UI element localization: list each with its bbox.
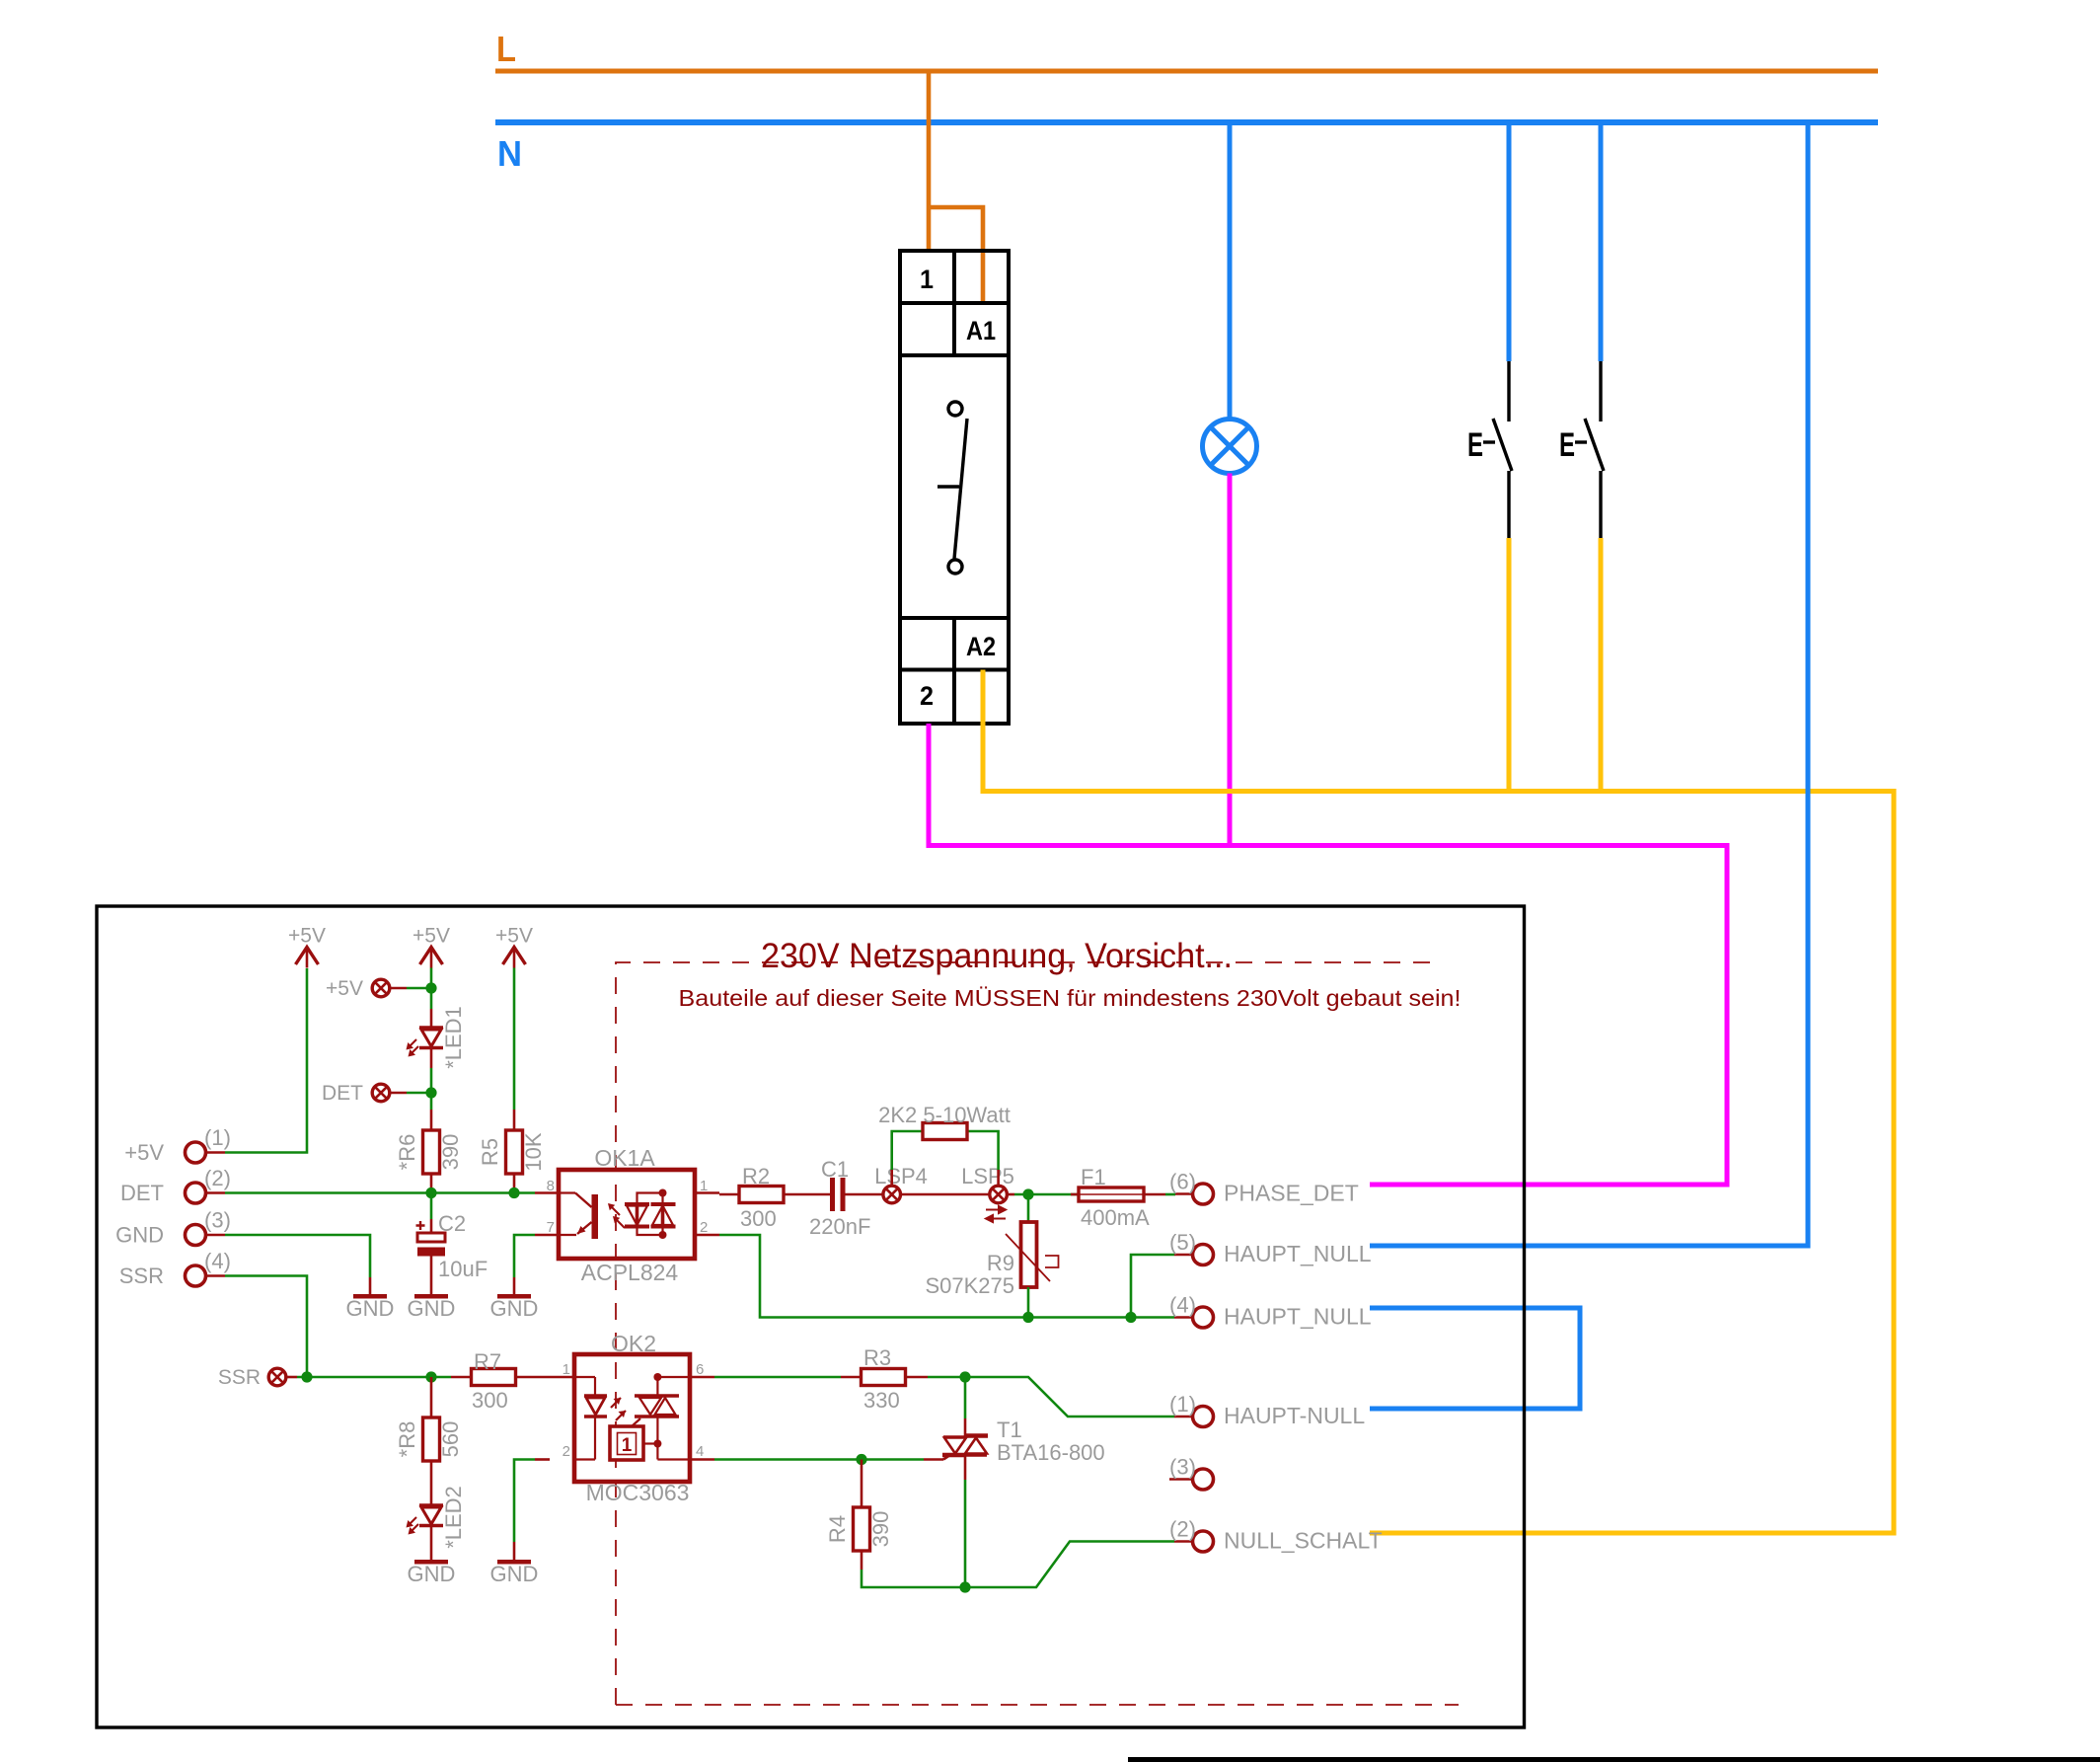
- wire N to HAUPT_NULL pad 5 (blue): [1370, 122, 1808, 1246]
- wire (pin stub): [430, 1377, 433, 1417]
- wire (pin stub): [901, 1193, 990, 1196]
- isolation boundary (dashed): [616, 962, 1459, 1705]
- wire: [514, 1235, 535, 1277]
- wire branch to relay A1: [929, 207, 983, 304]
- svg-text:2: 2: [920, 681, 934, 711]
- OK1A phototransistor: [559, 1193, 598, 1240]
- svg-text:GND: GND: [490, 1296, 539, 1321]
- wire: [965, 1542, 1174, 1588]
- wire lamp to PHASE_DET (magenta): [1228, 474, 1233, 846]
- wire: [1027, 1194, 1030, 1222]
- wire (pin stub): [1144, 1193, 1165, 1196]
- resistor R4 body: [854, 1507, 870, 1551]
- ground symbol: [353, 1294, 387, 1299]
- wire: [407, 1092, 431, 1095]
- svg-text:390: 390: [868, 1511, 893, 1548]
- OK1A back-to-back input diodes: [625, 1193, 676, 1236]
- wire: [1165, 1193, 1175, 1196]
- svg-text:SSR: SSR: [119, 1264, 164, 1288]
- svg-text:+5V: +5V: [124, 1140, 164, 1165]
- wire: [513, 1188, 516, 1193]
- test pad SSR: [268, 1368, 286, 1386]
- capacitor C1: [833, 1178, 844, 1211]
- svg-text:(6): (6): [1169, 1170, 1196, 1194]
- svg-text:10uF: 10uF: [438, 1257, 487, 1281]
- optocoupler OK2 box: [574, 1354, 690, 1482]
- wire (pin stub): [924, 1458, 943, 1461]
- test pad LSP5: [990, 1186, 1008, 1203]
- svg-text:R4: R4: [825, 1515, 850, 1543]
- connector pad X1-1: [186, 1142, 206, 1163]
- net junction: [959, 1371, 970, 1382]
- wire (pin stub): [430, 1009, 433, 1028]
- svg-text:2K2 5-10Watt: 2K2 5-10Watt: [878, 1103, 1011, 1127]
- varistor R9: [1021, 1222, 1037, 1287]
- svg-text:1: 1: [920, 265, 934, 294]
- net L : phase rail: [495, 69, 1878, 74]
- wire (pin stub): [1174, 1316, 1192, 1319]
- wire (pin stub): [430, 1526, 433, 1561]
- lamp E1 (symbol circle-X): [1203, 420, 1257, 474]
- svg-text:1: 1: [622, 1435, 633, 1456]
- resistor R5 body: [506, 1130, 523, 1174]
- net junction: [425, 982, 436, 993]
- wire: [928, 1376, 965, 1379]
- wire: [513, 968, 516, 1111]
- svg-text:HAUPT_NULL: HAUPT_NULL: [1224, 1304, 1372, 1330]
- svg-text:(1): (1): [1169, 1392, 1196, 1417]
- connector pad J3: [1193, 1469, 1214, 1490]
- svg-text:(3): (3): [1169, 1455, 1196, 1480]
- wire: [1014, 1193, 1079, 1196]
- svg-text:8: 8: [547, 1178, 555, 1194]
- connector pad X1-3: [186, 1225, 206, 1246]
- wire (pin stub): [964, 1418, 967, 1436]
- svg-text:*LED2: *LED2: [441, 1486, 466, 1549]
- svg-text:DET: DET: [322, 1082, 363, 1105]
- svg-text:*R8: *R8: [395, 1421, 419, 1458]
- net N : neutral rail: [495, 119, 1878, 125]
- svg-text:R5: R5: [478, 1138, 502, 1166]
- wire switch 1 to NULL_SCHALT (yellow): [1507, 538, 1512, 792]
- pushbutton switch E1: [1483, 361, 1512, 538]
- svg-text:T1: T1: [997, 1417, 1022, 1442]
- svg-text:A1: A1: [966, 316, 996, 345]
- test pad DET: [372, 1084, 390, 1102]
- resistor R8 body: [423, 1417, 440, 1461]
- svg-text:C1: C1: [821, 1157, 849, 1182]
- svg-text:NULL_SCHALT: NULL_SCHALT: [1224, 1528, 1383, 1554]
- resistor R2 body: [739, 1187, 784, 1203]
- wire (pin stub): [430, 1174, 433, 1188]
- svg-text:SSR: SSR: [218, 1366, 261, 1389]
- wire (pin stub): [430, 1048, 433, 1069]
- capacitor C2 (polarized): [417, 1233, 445, 1242]
- svg-text:OK2: OK2: [611, 1331, 656, 1356]
- svg-text:2: 2: [700, 1219, 708, 1236]
- svg-text:*LED1: *LED1: [441, 1006, 466, 1069]
- wire (pin stub): [784, 1193, 830, 1196]
- ground symbol: [497, 1560, 531, 1565]
- svg-text:OK1A: OK1A: [594, 1145, 655, 1171]
- wire: [514, 1460, 535, 1543]
- wire (pin stub): [390, 1092, 407, 1095]
- wire (pin stub): [861, 1551, 863, 1570]
- svg-text:GND: GND: [115, 1223, 164, 1248]
- wire: [719, 1235, 1028, 1318]
- wire (pin stub): [964, 1455, 967, 1480]
- resistor 2K2 body: [923, 1123, 967, 1140]
- wire (pin stub): [206, 1234, 226, 1237]
- svg-text:(4): (4): [204, 1249, 231, 1273]
- svg-text:E: E: [1559, 426, 1575, 464]
- svg-text:390: 390: [438, 1134, 463, 1171]
- svg-text:(2): (2): [204, 1166, 231, 1190]
- OK2 zero-cross block: [610, 1426, 643, 1460]
- wire (pin stub): [719, 1193, 739, 1196]
- svg-text:1: 1: [562, 1361, 570, 1378]
- wire (pin stub): [846, 1193, 883, 1196]
- wire (pin stub): [943, 1456, 949, 1460]
- wire (pin stub): [206, 1274, 226, 1277]
- wire (pin stub): [861, 1460, 863, 1486]
- wire (pin stub): [513, 1174, 516, 1188]
- wire (pin stub): [513, 1110, 516, 1130]
- connector pad J6: [1193, 1184, 1214, 1204]
- wire: [862, 1570, 965, 1587]
- svg-text:2: 2: [562, 1443, 570, 1460]
- svg-text:1: 1: [700, 1178, 708, 1194]
- svg-text:(4): (4): [1169, 1293, 1196, 1318]
- svg-text:LSP5: LSP5: [961, 1164, 1014, 1188]
- svg-text:+5V: +5V: [495, 925, 533, 948]
- wire (pin stub): [690, 1376, 714, 1379]
- wire: [225, 1191, 535, 1194]
- svg-text:F1: F1: [1081, 1165, 1106, 1189]
- svg-text:HAUPT-NULL: HAUPT-NULL: [1224, 1403, 1365, 1428]
- svg-text:4: 4: [696, 1443, 704, 1460]
- bottom sheet border (next frame): [1128, 1757, 2100, 1762]
- svg-text:10K: 10K: [521, 1132, 546, 1171]
- svg-text:LSP4: LSP4: [874, 1164, 928, 1188]
- wire (pin stub): [513, 1542, 516, 1560]
- net junction: [425, 1371, 436, 1382]
- wire: [407, 987, 431, 990]
- net junction: [1125, 1312, 1136, 1323]
- ground symbol: [414, 1560, 448, 1565]
- svg-text:300: 300: [740, 1206, 777, 1231]
- wire (pin stub): [905, 1376, 928, 1379]
- connector pad J4: [1193, 1307, 1214, 1328]
- OK1A light arrows: [609, 1204, 620, 1215]
- svg-text:ACPL824: ACPL824: [581, 1260, 679, 1285]
- wire (pin stub): [535, 1458, 550, 1461]
- connector pad J2: [1193, 1531, 1214, 1552]
- wire (pin stub): [1175, 1192, 1192, 1195]
- wire: [964, 1480, 967, 1587]
- svg-text:220nF: 220nF: [809, 1214, 870, 1239]
- svg-text:(2): (2): [1169, 1517, 1196, 1542]
- resistor R3 body: [862, 1369, 906, 1386]
- wire: [1027, 1287, 1030, 1318]
- +5V supply symbol: [296, 948, 319, 965]
- relay K1 (DIN latching relay) outline: [900, 251, 1009, 724]
- wire: [964, 1377, 967, 1418]
- svg-text:GND: GND: [346, 1296, 395, 1321]
- wire (pin stub): [1007, 1193, 1014, 1196]
- test pad +5V: [372, 979, 390, 997]
- pushbutton switch E2: [1575, 361, 1604, 538]
- svg-text:+5V: +5V: [288, 925, 326, 948]
- LSP5 polarity arrows: [986, 1206, 1006, 1222]
- OK2 light arrows: [611, 1398, 621, 1408]
- net junction: [1022, 1188, 1033, 1199]
- svg-text:L: L: [496, 29, 516, 69]
- svg-text:(1): (1): [204, 1125, 231, 1150]
- wire (pin stub): [1174, 1254, 1192, 1257]
- wire: [430, 1188, 433, 1193]
- svg-text:R7: R7: [474, 1349, 501, 1374]
- svg-text:6: 6: [696, 1361, 704, 1378]
- resistor R7 body: [472, 1369, 516, 1386]
- wire: [1131, 1255, 1174, 1318]
- connector pad J1: [1193, 1407, 1214, 1427]
- wire: [714, 1376, 841, 1379]
- wire: [967, 1131, 999, 1170]
- OK2 input LED: [574, 1377, 607, 1460]
- connector pad X1-2: [186, 1183, 206, 1203]
- resistor R6 body: [423, 1130, 440, 1174]
- wire (pin stub): [550, 1376, 574, 1379]
- wire (pin stub): [430, 1257, 433, 1295]
- svg-text:E: E: [1467, 426, 1483, 464]
- schematic frame box: [97, 906, 1525, 1727]
- svg-text:A2: A2: [966, 632, 996, 661]
- net junction: [959, 1581, 970, 1592]
- wire (pin stub): [206, 1151, 226, 1154]
- ground symbol: [497, 1294, 531, 1299]
- wire (pin stub): [451, 1376, 472, 1379]
- wire (pin stub): [535, 1191, 559, 1194]
- OK2 photo-triac: [632, 1377, 690, 1460]
- svg-text:R2: R2: [742, 1164, 770, 1188]
- wire N to switch 2 (blue): [1599, 122, 1604, 361]
- wire (pin stub): [535, 1234, 559, 1237]
- wire (pin stub): [997, 1170, 1000, 1186]
- svg-text:+5V: +5V: [412, 925, 450, 948]
- svg-text:C2: C2: [438, 1211, 466, 1236]
- LED LED1: [419, 1028, 443, 1048]
- wire: [1028, 1316, 1131, 1319]
- net junction: [1022, 1312, 1033, 1323]
- wire (pin stub): [890, 1170, 893, 1186]
- wire: [892, 1131, 923, 1170]
- wire (pin stub): [1169, 1478, 1192, 1481]
- net junction: [301, 1371, 312, 1382]
- wire (pin stub): [1174, 1416, 1192, 1418]
- svg-text:+5V: +5V: [326, 977, 363, 1000]
- +5V supply symbol: [420, 948, 443, 965]
- svg-text:N: N: [497, 133, 522, 174]
- wire (pin stub): [430, 1219, 433, 1233]
- svg-text:560: 560: [438, 1421, 463, 1458]
- svg-text:230V Netzspannung, Vorsicht...: 230V Netzspannung, Vorsicht...: [761, 937, 1233, 975]
- svg-text:HAUPT_NULL: HAUPT_NULL: [1224, 1241, 1372, 1266]
- svg-text:BTA16-800: BTA16-800: [997, 1440, 1105, 1465]
- wire (pin stub): [430, 1461, 433, 1505]
- LED LED2: [419, 1505, 443, 1526]
- wire: [1131, 1316, 1174, 1319]
- svg-text:(5): (5): [1169, 1230, 1196, 1255]
- wire (pin stub): [695, 1191, 719, 1194]
- op-amp/optocoupler OK1A box: [559, 1170, 695, 1259]
- wire (pin stub): [430, 1110, 433, 1130]
- relay contact symbol: [937, 402, 967, 574]
- ground symbol: [414, 1294, 448, 1299]
- wire: [430, 1193, 433, 1220]
- svg-text:(3): (3): [204, 1208, 231, 1233]
- wire (pin stub): [286, 1376, 297, 1379]
- wire relay 2 to PHASE_DET (magenta): [929, 724, 1727, 1185]
- wire (pin stub): [390, 987, 407, 990]
- wire: [225, 1276, 307, 1378]
- wire HAUPT_NULL pad 4 to pad 1 (blue): [1370, 1308, 1580, 1409]
- net junction: [508, 1187, 519, 1198]
- svg-text:400mA: 400mA: [1081, 1205, 1150, 1230]
- test pad LSP4: [883, 1186, 901, 1203]
- wire N to lamp (blue drop): [1228, 122, 1233, 420]
- wire: [965, 1377, 1174, 1417]
- net junction: [425, 1187, 436, 1198]
- net junction: [856, 1454, 866, 1465]
- wire N to switch 1 (blue): [1507, 122, 1512, 361]
- svg-text:GND: GND: [408, 1562, 456, 1586]
- svg-text:7: 7: [547, 1219, 555, 1236]
- svg-text:DET: DET: [120, 1181, 164, 1205]
- wire: [225, 968, 307, 1153]
- wire (pin stub): [841, 1376, 862, 1379]
- svg-text:*R6: *R6: [395, 1134, 419, 1171]
- svg-text:R3: R3: [863, 1345, 891, 1370]
- wire (pin stub): [695, 1234, 719, 1237]
- wire (pin stub): [206, 1191, 226, 1194]
- svg-text:MOC3063: MOC3063: [586, 1480, 690, 1505]
- svg-text:300: 300: [472, 1388, 508, 1413]
- svg-text:PHASE_DET: PHASE_DET: [1224, 1181, 1359, 1206]
- wire: [430, 968, 433, 1010]
- wire relay A2 to NULL_SCHALT (yellow): [983, 670, 1894, 1534]
- svg-text:GND: GND: [408, 1296, 456, 1321]
- wire (pin stub): [861, 1485, 863, 1507]
- wire: [297, 1376, 451, 1379]
- svg-text:330: 330: [863, 1388, 900, 1413]
- +5V supply symbol: [503, 948, 526, 965]
- wire (pin stub): [515, 1376, 550, 1379]
- wire L to relay pin 1 (orange drop): [927, 71, 932, 251]
- wire (pin stub): [1071, 1193, 1079, 1196]
- net junction: [425, 1087, 436, 1098]
- connector pad J5: [1193, 1245, 1214, 1265]
- wire (pin stub): [513, 1277, 516, 1294]
- svg-text:GND: GND: [490, 1562, 539, 1586]
- wire (pin stub): [1174, 1540, 1192, 1543]
- wire switch 2 to NULL_SCHALT (yellow): [1599, 538, 1604, 792]
- connector pad X1-4: [186, 1265, 206, 1286]
- wire (pin stub): [690, 1458, 714, 1461]
- svg-text:S07K275: S07K275: [925, 1273, 1014, 1298]
- svg-text:R9: R9: [987, 1251, 1014, 1275]
- wire: [714, 1458, 924, 1461]
- wire: [225, 1235, 370, 1277]
- wire: [430, 1068, 433, 1110]
- svg-text:Bauteile auf dieser Seite MÜSS: Bauteile auf dieser Seite MÜSSEN für min…: [679, 985, 1462, 1011]
- wire (pin stub): [369, 1277, 372, 1294]
